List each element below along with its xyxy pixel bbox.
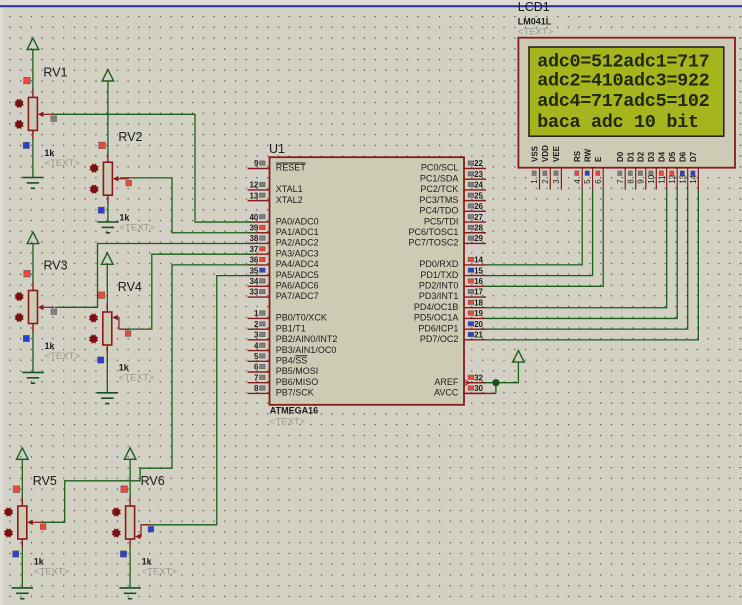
svg-text:12: 12	[668, 174, 677, 183]
svg-text:8: 8	[626, 179, 635, 184]
svg-text:1k: 1k	[45, 341, 56, 351]
svg-text:13: 13	[249, 191, 258, 200]
svg-text:LM041L: LM041L	[518, 16, 552, 26]
svg-text:adc2=410adc3=922: adc2=410adc3=922	[537, 70, 709, 91]
svg-text:32: 32	[474, 373, 483, 382]
svg-text:23: 23	[474, 170, 483, 179]
svg-text:<TEXT>: <TEXT>	[142, 567, 178, 578]
svg-text:3: 3	[552, 179, 561, 184]
svg-text:25: 25	[474, 191, 483, 200]
svg-text:U1: U1	[269, 142, 285, 156]
svg-text:16: 16	[474, 277, 483, 286]
svg-text:PC4/TDO: PC4/TDO	[419, 206, 458, 216]
svg-text:22: 22	[474, 159, 483, 168]
svg-text:PA2/ADC2: PA2/ADC2	[276, 238, 319, 248]
svg-text:15: 15	[474, 266, 483, 275]
svg-text:7: 7	[616, 179, 625, 184]
svg-text:14: 14	[689, 174, 698, 183]
svg-text:PD2/INT0: PD2/INT0	[419, 281, 459, 291]
svg-text:6: 6	[254, 363, 259, 372]
svg-text:28: 28	[474, 223, 483, 232]
svg-text:D6: D6	[679, 151, 688, 162]
svg-text:26: 26	[474, 202, 483, 211]
svg-text:18: 18	[474, 298, 483, 307]
svg-text:39: 39	[249, 223, 258, 232]
svg-text:<TEXT>: <TEXT>	[45, 351, 81, 362]
svg-text:LCD1: LCD1	[518, 0, 550, 14]
svg-text:<TEXT>: <TEXT>	[119, 373, 155, 384]
svg-text:PD3/INT1: PD3/INT1	[419, 291, 459, 301]
svg-text:PB0/T0/XCK: PB0/T0/XCK	[276, 313, 327, 323]
svg-text:1k: 1k	[142, 557, 153, 567]
svg-text:2: 2	[541, 179, 550, 184]
svg-text:11: 11	[657, 175, 666, 184]
svg-text:RV3: RV3	[44, 259, 68, 273]
svg-text:D1: D1	[627, 151, 636, 162]
svg-text:D5: D5	[668, 151, 677, 162]
svg-text:21: 21	[474, 331, 483, 340]
svg-text:1k: 1k	[119, 363, 130, 373]
svg-text:RV6: RV6	[141, 474, 165, 488]
svg-text:VEE: VEE	[552, 145, 561, 162]
svg-text:PA5/ADC5: PA5/ADC5	[276, 270, 319, 280]
svg-text:PB2/AIN0/INT2: PB2/AIN0/INT2	[276, 334, 338, 344]
svg-text:PD0/RXD: PD0/RXD	[419, 259, 459, 269]
svg-text:PD7/OC2: PD7/OC2	[420, 334, 459, 344]
svg-text:adc0=512adc1=717: adc0=512adc1=717	[537, 51, 709, 72]
svg-text:PB6/MISO: PB6/MISO	[276, 377, 319, 387]
svg-text:33: 33	[249, 288, 258, 297]
svg-text:<TEXT>: <TEXT>	[119, 223, 155, 234]
svg-text:RESET: RESET	[276, 163, 307, 173]
svg-text:baca adc 10 bit: baca adc 10 bit	[537, 112, 698, 133]
svg-text:3: 3	[254, 331, 259, 340]
svg-text:RS: RS	[573, 150, 582, 162]
svg-text:PB3/AIN1/OC0: PB3/AIN1/OC0	[276, 345, 337, 355]
svg-text:ATMEGA16: ATMEGA16	[270, 406, 318, 416]
svg-text:PD5/OC1A: PD5/OC1A	[414, 313, 459, 323]
svg-text:D2: D2	[637, 151, 646, 162]
svg-text:37: 37	[249, 245, 258, 254]
svg-text:<TEXT>: <TEXT>	[518, 27, 554, 38]
svg-text:36: 36	[249, 256, 258, 265]
svg-text:RV1: RV1	[43, 65, 67, 79]
svg-text:PC6/TOSC1: PC6/TOSC1	[409, 227, 459, 237]
svg-text:RV2: RV2	[118, 130, 142, 144]
svg-text:E: E	[594, 156, 603, 162]
svg-text:10: 10	[647, 174, 656, 183]
svg-text:27: 27	[474, 213, 483, 222]
svg-text:4: 4	[573, 179, 582, 184]
svg-text:12: 12	[249, 181, 258, 190]
svg-text:2: 2	[254, 320, 259, 329]
svg-text:1: 1	[530, 179, 539, 184]
svg-text:24: 24	[474, 181, 483, 190]
svg-text:VSS: VSS	[530, 145, 539, 162]
svg-text:PC0/SCL: PC0/SCL	[421, 163, 459, 173]
svg-text:AVCC: AVCC	[434, 388, 459, 398]
svg-text:PD4/OC1B: PD4/OC1B	[414, 302, 459, 312]
svg-text:9: 9	[254, 159, 259, 168]
svg-text:30: 30	[474, 384, 483, 393]
svg-text:38: 38	[249, 234, 258, 243]
svg-text:<TEXT>: <TEXT>	[44, 158, 80, 169]
svg-text:PB4/SS: PB4/SS	[276, 355, 308, 365]
svg-text:1k: 1k	[44, 148, 55, 158]
svg-text:PA0/ADC0: PA0/ADC0	[276, 216, 319, 226]
svg-text:1: 1	[254, 309, 259, 318]
svg-text:29: 29	[474, 234, 483, 243]
svg-text:PC3/TMS: PC3/TMS	[419, 195, 458, 205]
svg-text:PB7/SCK: PB7/SCK	[276, 388, 314, 398]
svg-text:XTAL2: XTAL2	[276, 195, 303, 205]
svg-text:VDD: VDD	[541, 145, 550, 162]
svg-text:40: 40	[249, 213, 258, 222]
svg-text:8: 8	[254, 384, 259, 393]
svg-text:34: 34	[249, 277, 258, 286]
svg-text:4: 4	[254, 341, 259, 350]
svg-text:13: 13	[678, 174, 687, 183]
svg-text:<TEXT>: <TEXT>	[270, 417, 306, 428]
svg-text:<TEXT>: <TEXT>	[34, 567, 70, 578]
svg-text:PA1/ADC1: PA1/ADC1	[276, 227, 319, 237]
svg-text:D7: D7	[689, 151, 698, 162]
svg-text:RV5: RV5	[33, 474, 57, 488]
svg-text:PC2/TCK: PC2/TCK	[420, 184, 458, 194]
svg-text:PB1/T1: PB1/T1	[276, 323, 306, 333]
svg-text:1k: 1k	[34, 557, 45, 567]
svg-text:5: 5	[583, 179, 592, 184]
svg-text:PA4/ADC4: PA4/ADC4	[276, 259, 319, 269]
svg-text:35: 35	[249, 266, 258, 275]
svg-text:PC7/TOSC2: PC7/TOSC2	[409, 238, 459, 248]
svg-text:20: 20	[474, 320, 483, 329]
svg-text:XTAL1: XTAL1	[276, 184, 303, 194]
svg-text:RV4: RV4	[118, 280, 142, 294]
svg-text:PB5/MOSI: PB5/MOSI	[276, 366, 319, 376]
svg-text:RW: RW	[583, 148, 592, 162]
svg-text:adc4=717adc5=102: adc4=717adc5=102	[537, 91, 709, 112]
svg-text:17: 17	[474, 288, 483, 297]
svg-text:1k: 1k	[119, 213, 130, 223]
svg-text:19: 19	[474, 309, 483, 318]
svg-text:D0: D0	[616, 151, 625, 162]
svg-text:9: 9	[636, 179, 645, 184]
svg-text:14: 14	[474, 256, 483, 265]
svg-text:PD6/ICP1: PD6/ICP1	[418, 323, 458, 333]
svg-text:PC1/SDA: PC1/SDA	[420, 173, 459, 183]
svg-text:D3: D3	[647, 151, 656, 162]
svg-text:PA6/ADC6: PA6/ADC6	[276, 281, 319, 291]
svg-text:7: 7	[254, 373, 259, 382]
svg-text:D4: D4	[658, 151, 667, 162]
svg-text:AREF: AREF	[434, 377, 459, 387]
svg-text:PD1/TXD: PD1/TXD	[420, 270, 459, 280]
svg-text:PA3/ADC3: PA3/ADC3	[276, 248, 319, 258]
svg-text:5: 5	[254, 352, 259, 361]
svg-text:PC5/TDI: PC5/TDI	[424, 216, 459, 226]
svg-text:PA7/ADC7: PA7/ADC7	[276, 291, 319, 301]
svg-text:6: 6	[594, 179, 603, 184]
